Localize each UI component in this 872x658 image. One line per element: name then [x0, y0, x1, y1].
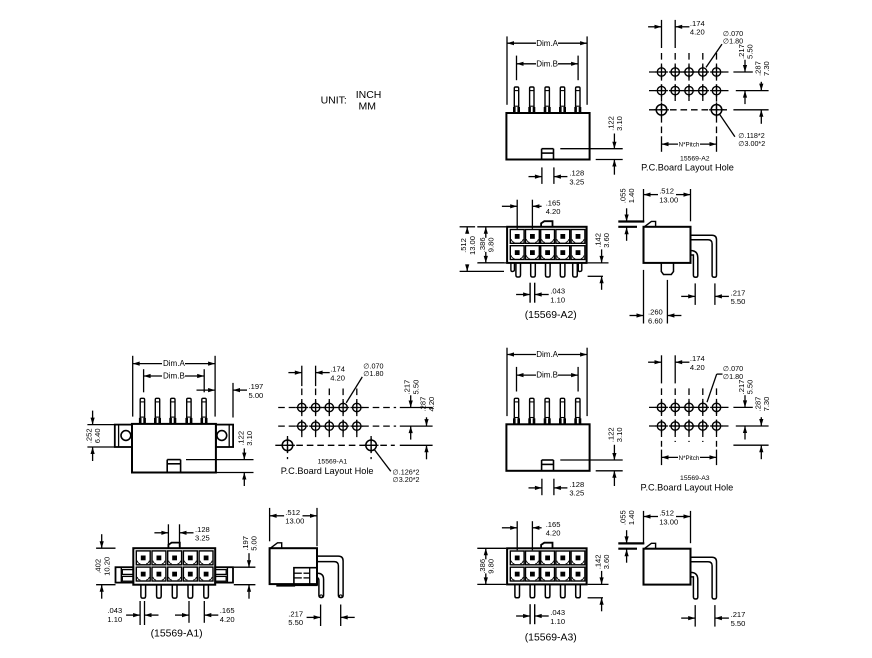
svg-text:∅3.20*2: ∅3.20*2: [393, 475, 420, 484]
pin 3: [171, 398, 175, 424]
dimension .217/5.50: [694, 605, 696, 627]
svg-text:5.50: 5.50: [746, 380, 755, 395]
leader dia .118*2/3.00*2: [720, 114, 735, 137]
side view body (A3): [644, 549, 691, 585]
pin 2: [155, 398, 159, 424]
svg-text:1.10: 1.10: [107, 615, 122, 624]
svg-text:5.50: 5.50: [731, 619, 746, 628]
pin 3: [545, 87, 549, 113]
cavity row2 col1: [510, 246, 524, 260]
cavity row1 col1: [136, 551, 150, 565]
keying notch: [166, 460, 168, 473]
hole A2 r1c1 dia .070: [657, 68, 665, 76]
side view body (A1): [270, 548, 317, 584]
pin 1: [140, 398, 144, 424]
mating plane line (tab top level): [618, 220, 644, 222]
svg-text:.512: .512: [659, 187, 674, 196]
pin 2: [530, 584, 535, 597]
pin 2: [530, 87, 534, 113]
cavity row1 col3: [168, 551, 182, 565]
svg-text:.165: .165: [546, 520, 561, 529]
svg-text:Dim.B: Dim.B: [536, 371, 558, 380]
svg-text:Dim.A: Dim.A: [163, 359, 185, 368]
cavity row2 col1: [136, 567, 150, 581]
svg-text:N*Pitch: N*Pitch: [679, 455, 700, 462]
dimension .128/3.25: [541, 479, 543, 496]
dual-row connector body (A2): [507, 227, 586, 263]
dimension N*Pitch: [661, 136, 663, 152]
cavity row1 col3: [541, 230, 555, 244]
right extension lines: [733, 406, 752, 408]
svg-text:.174: .174: [690, 19, 705, 28]
svg-text:INCH: INCH: [356, 89, 382, 101]
svg-text:.128: .128: [195, 525, 210, 534]
side view body (A2): [644, 227, 691, 263]
hole A1 r2c2 dia .070: [311, 422, 319, 430]
row3 dashed centerline: [649, 109, 727, 111]
leader line from notch: [560, 148, 622, 150]
dimension .122/3.10: [596, 470, 623, 472]
dimension .165/4.20 (top pitch): [516, 521, 518, 550]
svg-text:Dim.B: Dim.B: [536, 59, 558, 68]
right ear hole: [217, 431, 227, 441]
hole A3 r2c3 dia .070: [685, 422, 693, 430]
pin 5: [202, 398, 206, 424]
pin 4: [187, 398, 191, 424]
pin 3: [172, 585, 177, 598]
svg-text:4.20: 4.20: [690, 363, 705, 372]
hole A1 r1c4 dia .070: [339, 403, 347, 411]
mounting hole dia .118 left: [656, 105, 667, 116]
side flange with slots: [294, 568, 317, 586]
svg-text:5.00: 5.00: [250, 536, 259, 551]
dual-row connector body (A1): [133, 548, 215, 585]
cavity row1 col2: [526, 230, 540, 244]
pin 2: [530, 398, 534, 424]
PCB layout centerlines A2: [661, 53, 663, 134]
dimension .386/9.80 (body height): [477, 547, 506, 549]
svg-text:6.60: 6.60: [648, 316, 663, 325]
hole A3 r2c4 dia .070: [699, 422, 707, 430]
svg-text:.512: .512: [659, 509, 674, 518]
dimension .386/9.80 (body height): [477, 226, 506, 228]
svg-text:13.00: 13.00: [285, 517, 304, 526]
cavity row1 col5: [571, 230, 585, 244]
svg-text:.260: .260: [648, 308, 663, 317]
dimension .252/6.40 (ear height): [87, 424, 114, 426]
hole A3 r2c2 dia .070: [671, 422, 679, 430]
dimension .512/13.00: [643, 511, 645, 544]
svg-text:.217: .217: [731, 288, 746, 297]
svg-text:1.40: 1.40: [627, 188, 636, 203]
mounting hole dia .126 left: [282, 440, 293, 451]
lower right-angle pin: [318, 573, 324, 597]
svg-text:∅1.80: ∅1.80: [363, 369, 383, 378]
cavity row2 col4: [556, 246, 570, 260]
svg-text:(15569-A1): (15569-A1): [151, 629, 203, 640]
upper right-angle pin: [691, 235, 717, 277]
svg-text:15569-A3: 15569-A3: [680, 475, 710, 482]
svg-text:.128: .128: [569, 480, 584, 489]
left ear hole: [121, 431, 131, 441]
hole A1 r2c4 dia .070: [339, 422, 347, 430]
cavity row1 col4: [556, 551, 570, 565]
body top extension line: [618, 226, 637, 228]
svg-text:∅1.80: ∅1.80: [723, 372, 743, 381]
polarization bump on top: [541, 543, 552, 549]
svg-text:.217: .217: [288, 609, 303, 618]
svg-text:1.40: 1.40: [627, 510, 636, 525]
svg-text:7.30: 7.30: [762, 397, 771, 412]
svg-text:∅3.00*2: ∅3.00*2: [738, 139, 765, 148]
dimension .122/3.10: [216, 472, 254, 474]
svg-text:.043: .043: [550, 287, 565, 296]
dimension .402/10.20 (body height): [96, 547, 115, 549]
pin 3: [545, 584, 550, 597]
dimension .512/13.00 (overall height): [460, 226, 476, 228]
svg-text:5.00: 5.00: [249, 391, 264, 400]
svg-text:.043: .043: [107, 606, 122, 615]
mounting hole dia .126 right: [366, 440, 377, 451]
dimension .197/5.00 (ear to bottom): [234, 566, 256, 568]
svg-text:4.20: 4.20: [330, 373, 345, 382]
dimension Dim.B: [143, 369, 145, 392]
hole A2 r1c4 dia .070: [699, 68, 707, 76]
pin 5: [576, 584, 581, 597]
svg-text:6.40: 6.40: [93, 428, 102, 443]
svg-text:.217: .217: [731, 610, 746, 619]
hole A3 r1c3 dia .070: [685, 403, 693, 411]
svg-text:(15569-A3): (15569-A3): [525, 632, 577, 643]
hole A3 r1c1 dia .070: [657, 403, 665, 411]
cavity row1 col3: [541, 551, 555, 565]
svg-text:1.10: 1.10: [550, 617, 565, 626]
hole A2 r1c5 dia .070: [712, 68, 720, 76]
dimension .197/5.00: [232, 383, 234, 418]
svg-text:∅1.80: ∅1.80: [723, 36, 743, 45]
svg-text:3.60: 3.60: [602, 233, 611, 248]
cavity row2 col2: [152, 567, 166, 581]
svg-text:15569-A1: 15569-A1: [318, 459, 348, 466]
pin 1: [141, 585, 146, 598]
hole A2 r2c2 dia .070: [671, 86, 679, 94]
dimension N*Pitch: [661, 450, 663, 466]
dimension .512/13.00: [269, 508, 271, 541]
dimension .217/5.50: [694, 283, 696, 305]
cavity row2 col5: [571, 246, 585, 260]
svg-text:5.50: 5.50: [288, 618, 303, 627]
svg-text:Dim.A: Dim.A: [536, 350, 558, 359]
pin 1: [515, 584, 520, 597]
keying notch: [541, 149, 543, 160]
cavity row1 col2: [152, 551, 166, 565]
pin 2: [157, 585, 162, 598]
dimension .260/6.60: [643, 270, 645, 324]
bottom mounting peg: [661, 263, 673, 275]
leader line from notch: [560, 459, 622, 461]
svg-text:5.50: 5.50: [746, 44, 755, 59]
cavity row1 col5: [199, 551, 213, 565]
svg-text:UNIT:: UNIT:: [321, 94, 347, 106]
dimension Dim.B: [516, 56, 518, 81]
hole A3 r1c5 dia .070: [712, 403, 720, 411]
svg-text:(15569-A2): (15569-A2): [525, 310, 577, 321]
pin 3: [545, 398, 549, 424]
svg-text:5.50: 5.50: [411, 380, 420, 395]
upper right-angle pin: [317, 556, 343, 598]
right mounting ear: [215, 567, 233, 582]
pin 5: [576, 398, 580, 424]
hole A2 r2c3 dia .070: [685, 86, 693, 94]
svg-text:13.00: 13.00: [659, 517, 678, 526]
row3 dashed centerline: [275, 444, 395, 446]
cavity row2 col3: [168, 567, 182, 581]
svg-text:.512: .512: [285, 508, 300, 517]
latch tab top-left: [644, 543, 655, 548]
cavity row1 col4: [556, 230, 570, 244]
mating plane line (tab top level): [618, 542, 644, 544]
cavity row2 col2: [526, 567, 540, 581]
connector body front view: [506, 424, 589, 471]
cavity row2 col2: [526, 246, 540, 260]
pin 4: [560, 87, 564, 113]
upper right-angle pin: [691, 557, 717, 599]
dimension .174/4.20 (hole pitch): [301, 366, 303, 386]
pins (through-hole, front and back rows): [511, 263, 515, 272]
svg-text:MM: MM: [359, 101, 377, 113]
dimension .043/1.10 (pin width): [139, 601, 141, 625]
cavity row1 col5: [571, 551, 585, 565]
svg-text:3.60: 3.60: [602, 555, 611, 570]
hole A3 r1c4 dia .070: [699, 403, 707, 411]
hole A2 r2c5 dia .070: [712, 86, 720, 94]
right extension lines: [400, 407, 433, 409]
leader dia .126*2/3.20*2: [374, 450, 390, 472]
svg-text:4.20: 4.20: [546, 207, 561, 216]
right ear: [216, 425, 233, 447]
cavity row2 col4: [556, 567, 570, 581]
svg-text:.165: .165: [546, 198, 561, 207]
svg-text:.128: .128: [569, 169, 584, 178]
svg-text:4.20: 4.20: [427, 397, 436, 412]
PCB layout centerlines A1: [301, 389, 303, 438]
svg-text:.043: .043: [550, 608, 565, 617]
svg-text:P.C.Board Layout Hole: P.C.Board Layout Hole: [641, 162, 734, 172]
svg-text:N*Pitch: N*Pitch: [679, 142, 700, 149]
polarization bump on top: [541, 221, 552, 227]
pin 1: [514, 398, 518, 424]
dimension .043/1.10 (pin width): [529, 604, 531, 624]
standoff line: [276, 584, 295, 586]
svg-text:1.10: 1.10: [550, 295, 565, 304]
svg-text:4.20: 4.20: [690, 28, 705, 37]
dimension Dim.A: [506, 36, 508, 104]
right extension lines: [733, 71, 752, 73]
svg-text:3.10: 3.10: [615, 116, 624, 131]
hole A2 r1c2 dia .070: [671, 68, 679, 76]
svg-text:9.80: 9.80: [486, 559, 495, 574]
cavity row2 col3: [541, 246, 555, 260]
svg-text:.197: .197: [249, 382, 264, 391]
svg-text:3.25: 3.25: [569, 177, 584, 186]
keying notch: [541, 460, 543, 471]
pin 4: [561, 584, 566, 597]
left mounting ear: [116, 567, 134, 582]
svg-text:13.00: 13.00: [659, 195, 678, 204]
svg-text:7.30: 7.30: [762, 61, 771, 76]
mounting hole dia .118 right: [711, 105, 722, 116]
hole A1 r1c2 dia .070: [311, 403, 319, 411]
dimension .165/4.20 (top pitch): [516, 200, 518, 229]
dimension .217/5.50: [320, 605, 322, 627]
cavity row2 col1: [510, 567, 524, 581]
cavity row1 col2: [526, 551, 540, 565]
hole A1 r1c1 dia .070: [298, 403, 306, 411]
left ear: [115, 425, 132, 447]
dimension .165/4.20 (pin pitch): [188, 601, 190, 623]
dual-row connector body (A3): [507, 548, 586, 584]
dimension .142/3.60 (pin protrusion): [588, 583, 609, 585]
hole A3 r1c2 dia .070: [671, 403, 679, 411]
pin 5: [204, 585, 209, 598]
dimension Dim.A: [506, 348, 508, 416]
hole A2 r1c3 dia .070: [685, 68, 693, 76]
cavity row2 col3: [541, 567, 555, 581]
svg-text:.174: .174: [690, 354, 705, 363]
pin 5: [576, 87, 580, 113]
dimension .043/1.10 (pin width): [529, 283, 531, 303]
dimension .128/3.25 (bump width): [167, 524, 169, 546]
svg-text:4.20: 4.20: [220, 615, 235, 624]
svg-text:9.80: 9.80: [486, 237, 495, 252]
hole A1 r2c1 dia .070: [298, 422, 306, 430]
dimension Dim.A: [132, 356, 134, 417]
cavity row1 col4: [183, 551, 197, 565]
latch tab top-left: [270, 543, 281, 548]
dimension .122/3.10: [596, 159, 623, 161]
pin 1: [514, 87, 518, 113]
leader line from notch: [186, 459, 254, 461]
polarization bump on top: [168, 543, 179, 549]
cavity row2 col5: [571, 567, 585, 581]
svg-text:3.25: 3.25: [569, 489, 584, 498]
svg-text:10.20: 10.20: [102, 557, 111, 576]
body top extension line: [618, 548, 637, 550]
dimension .174/4.20 (hole pitch): [661, 20, 663, 48]
svg-text:P.C.Board Layout Hole: P.C.Board Layout Hole: [281, 466, 374, 476]
hole A1 r2c3 dia .070: [325, 422, 333, 430]
svg-text:3.25: 3.25: [195, 534, 210, 543]
svg-text:P.C.Board Layout Hole: P.C.Board Layout Hole: [641, 482, 734, 492]
svg-text:Dim.B: Dim.B: [163, 372, 185, 381]
lower right-angle pin: [691, 572, 698, 599]
cavity row2 col4: [183, 567, 197, 581]
cavity row1 col1: [510, 230, 524, 244]
hole A3 r2c1 dia .070: [657, 422, 665, 430]
hole A1 r1c5 dia .070: [353, 403, 361, 411]
hole A2 r2c4 dia .070: [699, 86, 707, 94]
pin 4: [560, 398, 564, 424]
PCB layout centerlines A3: [661, 388, 663, 446]
svg-text:5.50: 5.50: [731, 297, 746, 306]
pin 4: [188, 585, 193, 598]
dimension .512/13.00: [643, 189, 645, 222]
dimension .174/4.20 (hole pitch): [661, 355, 663, 383]
hole A1 r1c3 dia .070: [325, 403, 333, 411]
dimension Dim.B: [516, 367, 518, 392]
latch tab top-left: [644, 221, 655, 226]
hole A3 r2c5 dia .070: [712, 422, 720, 430]
connector body front view: [506, 113, 589, 160]
cavity row1 col1: [510, 551, 524, 565]
cavity row2 col5: [199, 567, 213, 581]
svg-text:4.20: 4.20: [546, 529, 561, 538]
hole A2 r2c1 dia .070: [657, 86, 665, 94]
lower right-angle pin: [691, 251, 698, 278]
hole A1 r2c5 dia .070: [353, 422, 361, 430]
svg-text:.174: .174: [330, 365, 345, 374]
svg-text:3.10: 3.10: [615, 427, 624, 442]
svg-text:Dim.A: Dim.A: [536, 39, 558, 48]
svg-text:13.00: 13.00: [468, 236, 477, 255]
svg-text:3.10: 3.10: [245, 431, 254, 446]
dimension .128/3.25: [541, 167, 543, 184]
svg-text:.165: .165: [220, 606, 235, 615]
dimension .142/3.60 (pin protrusion): [588, 262, 609, 264]
connector body front view (A1): [132, 424, 216, 473]
